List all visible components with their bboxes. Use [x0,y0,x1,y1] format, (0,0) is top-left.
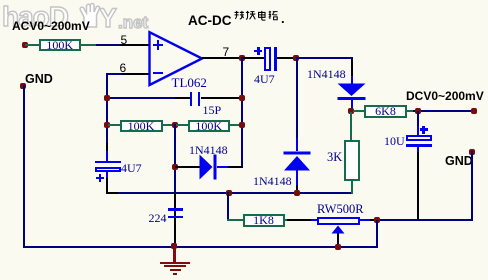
node diode row left junction [172,164,178,170]
capacitor 10U blue lead top [417,126,419,136]
node RW wiper at ground rail [335,244,341,250]
label 15P [203,103,222,118]
capacitor 4U7 horizontal line plate [274,47,277,72]
wire pin5 navy segment [96,44,120,46]
wire 15P row black left [175,97,190,99]
node GND left terminal [20,83,26,89]
wire bottom ground rail [23,246,378,248]
node pin6 column at 15P row [104,95,110,101]
ground symbol [173,246,176,262]
label ACV0~200mV [12,19,90,33]
node 10U top junction [415,108,421,114]
wire 224 column black [174,192,176,247]
wire RW right black [370,219,378,221]
wire stub to 100K#2 [108,124,120,126]
capacitor 4U7 vertical blue lead top [106,151,108,161]
label 3K [327,150,342,165]
op-amp plus input symbol [157,40,160,50]
wire stub to 6K8 green [353,110,364,112]
wire 3K bottom green [351,180,353,194]
diode D 1N4148 horizontal [199,154,218,180]
wire pin6 navy elbow [106,73,122,75]
wire RW junction drop navy [376,220,378,247]
node RW right junction [374,217,380,223]
wire pin6 black segment [120,73,150,75]
wire 15P row black right [201,97,242,99]
title period [281,11,285,26]
capacitor 10U blue lead bottom [417,147,419,153]
node 100K row right [239,122,245,128]
op-amp U1 TL062 triangle [146,29,206,89]
resistor 100K (feedback left) [120,120,163,132]
wire ACV terminal to R input [25,44,39,46]
capacitor 10U bottom plate [406,144,432,147]
capacitor 4U7 vertical top plate [95,161,121,164]
wire feedback right column [241,57,243,167]
wire 1K8 branch navy [227,192,229,221]
resistor 6K8 [364,105,407,118]
watermark Y [99,3,117,34]
label GND (left) [25,72,53,86]
wire vertical diode black to rail [296,185,298,193]
wire output to 4U7h cap black [243,57,264,59]
potentiometer RW500R right blue lead [360,219,370,221]
label 4U7 (vertical cap) [121,161,142,176]
node 100K row left [104,122,110,128]
op-amp minus input symbol [153,72,163,75]
wire GND right vertical [471,151,473,221]
resistor 1K8 [243,214,285,227]
node DCV output terminal [471,108,477,114]
wire diode cathode blue lead [217,166,228,168]
wire 1K8 left green stub [227,219,243,221]
pin number 6 [120,61,127,75]
resistor 100K (input) [39,39,82,51]
label TL062 [172,75,207,91]
node vertical diode at rail [294,190,300,196]
wire top diode cathode blue lead [351,100,353,109]
node 224 at ground rail [171,243,177,249]
capacitor 10U boxed plate [406,135,432,141]
wire inverting input column [106,73,108,151]
label RW500R [317,202,364,217]
pin number 7 [223,45,230,59]
node 6K8 left junction [348,108,354,114]
node 1K8 branch junction [226,190,232,196]
wire mid rail y193 black left [106,192,120,194]
resistor 3K [344,140,360,181]
wire stub mid node to 100K#3 [176,124,189,126]
wire top diode drop black [351,59,353,76]
watermark haoDIY.net text [2,1,68,33]
capacitor 4U7 horizontal plus sign [257,47,260,55]
wire 15P row navy left [108,97,175,99]
capacitor 224 plates [168,208,184,210]
watermark .net [118,13,148,33]
wire stub 100K#2 to mid node [162,124,175,126]
wire diode to right column black [228,166,243,168]
potentiometer RW500R wiper arrow [331,225,345,234]
wire left ground rail vertical [23,85,25,247]
node GND right terminal [469,149,475,155]
resistor 100K (feedback right) [188,120,230,132]
wire vertical diode column navy [296,59,298,138]
label DCV0~200mV [406,89,484,103]
label GND (right) [445,154,473,168]
wire 1K8 right green stub [285,219,289,221]
wire 10U bottom black [417,152,419,221]
title Chinese 转换电路. (approximated glyph strokes) [233,10,280,23]
capacitor 15P plates [190,92,192,106]
label 1N4148 (vertical diode) [253,174,292,189]
wire 4U7 bottom black to rail [106,178,108,194]
wire 3K top green [350,112,352,140]
wire top right rail navy [296,57,353,59]
label 10U [384,134,405,149]
diode D 1N4148 top (pointing down) [337,83,366,100]
wire bottom right rail y220 [377,219,473,221]
wire vertical diode blue lead top [296,138,298,151]
node mid feedback junction [172,122,178,128]
wire 4U7h right black [277,57,295,59]
potentiometer RW500R body [317,217,360,225]
capacitor 4U7 horizontal boxed plate [264,47,271,72]
label 1N4148 (top diode) [307,67,346,82]
wire 1K8 to RW black [287,219,311,221]
wire mid column navy [174,124,176,193]
wire 6K8 right green stub [407,110,413,112]
capacitor 4U7 vertical plus sign [99,174,102,182]
node 15P right junction [239,95,245,101]
wire top diode blue lead [351,76,353,84]
capacitor 4U7 vertical blue lead bottom [106,172,108,179]
pin number 5 [121,33,128,47]
label 4U7 (horizontal cap) [254,72,275,87]
wire 10U top navy [417,111,419,126]
capacitor C 4U7 vertical: black lead [106,143,108,152]
diode D 1N4148 vertical (pointing up) [283,151,311,171]
watermark hand icon [76,2,106,28]
node output junction [239,55,245,61]
potentiometer RW500R left blue lead [311,219,317,221]
wire op-amp output black [202,57,242,59]
wire R to op-amp pin5 (green stub) [80,44,96,46]
wire stub 100K#3 to right column [229,124,242,126]
wire RW wiper drop black [337,233,339,247]
title AC-DC [188,13,232,28]
capacitor 10U plus sign [422,126,425,134]
label 224 [149,211,167,226]
wire diode anode black [175,166,200,168]
wire DCV output navy [413,110,475,112]
capacitor 4U7 vertical bottom boxed plate [95,167,121,172]
node ACV input terminal [22,42,28,48]
wire mid rail y193 navy [118,192,353,194]
node after 4U7h cap [293,55,299,61]
wire vertical diode blue lead bottom [296,170,298,185]
label 1N4148 (horizontal diode) [189,143,228,158]
wire pin5 black segment [120,44,150,46]
